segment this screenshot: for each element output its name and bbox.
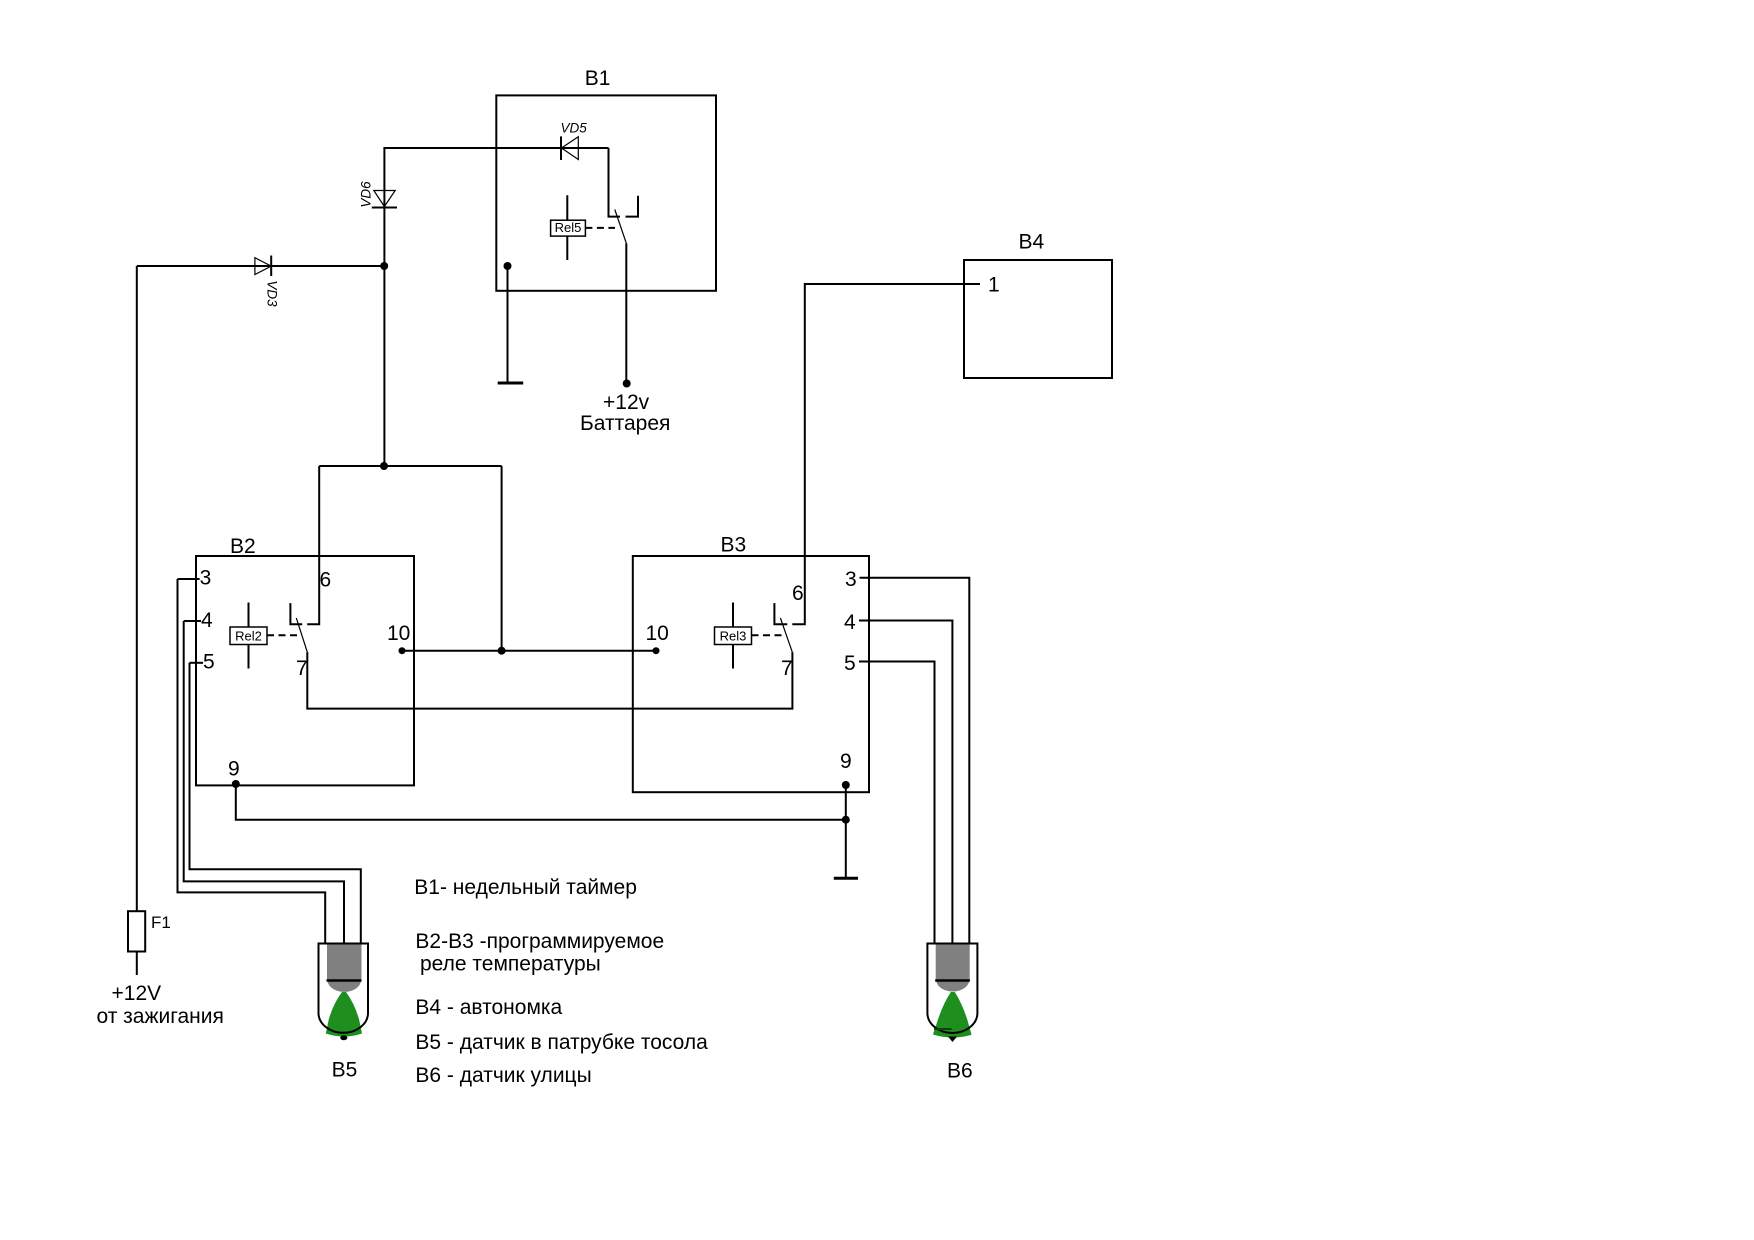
wire: vertical through VD6 from top elbow to lower node [383, 147, 385, 466]
svg-text:B5: B5 [332, 1059, 358, 1082]
svg-text:3: 3 [200, 567, 212, 590]
wire: drop to 10-net [501, 466, 503, 651]
svg-text:5: 5 [203, 651, 215, 674]
node: B1 ground node dot [504, 262, 512, 270]
svg-text:6: 6 [792, 582, 804, 605]
pin 4 stub of B2 [184, 620, 201, 622]
svg-text:4: 4 [201, 609, 213, 632]
relay Rel2 fixed contact [290, 603, 302, 624]
svg-text:VD3: VD3 [264, 280, 279, 307]
svg-text:В2-В3 -программируемое: В2-В3 -программируемое [415, 930, 664, 953]
wire: B2 pin3 to sensor B5 [178, 579, 326, 946]
pin 5 stub of B2 [190, 662, 204, 664]
svg-text:5: 5 [844, 652, 856, 675]
wire: left vertical from VD3 down to fuse F1 [136, 266, 138, 911]
svg-text:10: 10 [646, 622, 669, 645]
wire: drop to B2 pin6 contact [307, 466, 319, 624]
wire: 10-net horizontal B2 to B3 [402, 650, 656, 652]
node dot B2 pin9 [232, 780, 240, 788]
dashed link Rel2 to blade [267, 634, 300, 636]
node dot top distribution junction [380, 462, 388, 470]
svg-text:+12V: +12V [112, 982, 162, 1005]
svg-text:B3: B3 [721, 534, 747, 557]
node dot B3 pin9 [842, 781, 850, 789]
wire: B4 pin1 wire down to B3 pin6 contact [792, 284, 980, 624]
wire: B3 pin9 down to ground [845, 785, 847, 877]
svg-text:9: 9 [840, 750, 852, 773]
node dot B2 pin10 [399, 647, 406, 654]
node: +12v battery terminal dot [623, 380, 631, 388]
svg-text:В5 - датчик в патрубке тосола: В5 - датчик в патрубке тосола [415, 1031, 708, 1054]
block B4 (autonomous heater) box [964, 260, 1112, 378]
relay Rel5 switch blade [615, 210, 627, 244]
wire: B1 node down to ground [507, 266, 509, 382]
svg-text:Rel3: Rel3 [720, 629, 747, 644]
svg-text:3: 3 [845, 568, 857, 591]
diode VD6 [372, 191, 397, 208]
svg-text:10: 10 [387, 622, 410, 645]
sensor B5 bulb [319, 944, 369, 1041]
wire: blade to +12v battery terminal [625, 243, 627, 383]
wire: B2 pin5 to sensor B5 [190, 663, 361, 958]
relay Rel3 switch blade [780, 618, 792, 652]
sensor B6 bulb [927, 944, 977, 1043]
fuse F1 [128, 911, 145, 951]
svg-text:В4 - автономка: В4 - автономка [415, 996, 562, 1019]
pin 5 stub of B3 to B6 [859, 662, 935, 953]
svg-text:+12v: +12v [603, 391, 650, 414]
ground bar below B3 [834, 877, 858, 880]
relay Rel5 coil line [566, 195, 568, 260]
dashed link Rel5 to blade [585, 227, 615, 229]
wire: top horizontal from VD6 branch through B1 to switch [384, 147, 608, 149]
diode VD5 [561, 136, 578, 160]
pin 3 stub of B3 to B6 [860, 578, 970, 952]
svg-text:B2: B2 [230, 535, 256, 558]
relay Rel3 coil line [732, 603, 734, 669]
wire: VD5 down to Rel5 moving contact arm [609, 148, 621, 217]
svg-text:В6 - датчик улицы: В6 - датчик улицы [415, 1064, 591, 1087]
svg-text:Rel5: Rel5 [555, 220, 582, 235]
svg-text:реле температуры: реле температуры [420, 953, 601, 976]
block B3 (temperature relay) box [633, 556, 869, 792]
relay Rel3 coil box [715, 627, 752, 645]
relay Rel2 coil line [248, 603, 250, 669]
svg-text:Rel2: Rel2 [235, 629, 262, 644]
relay Rel5 coil box [551, 220, 586, 236]
pin 3 stub of B2 [178, 578, 200, 580]
svg-text:B4: B4 [1019, 230, 1045, 253]
wire: 7-net B2 blade to B3 blade [307, 652, 792, 709]
svg-text:VD5: VD5 [561, 120, 588, 135]
svg-text:6: 6 [320, 569, 332, 592]
relay Rel5 fixed contact [626, 196, 639, 217]
wire: B2 pin4 to sensor B5 [184, 621, 344, 952]
svg-text:Баттарея: Баттарея [580, 412, 670, 435]
relay Rel3 fixed contact [774, 603, 787, 624]
wire: VD3 horizontal to node [137, 265, 385, 267]
node dot 9-net junction [842, 816, 850, 824]
svg-text:7: 7 [296, 657, 308, 680]
svg-text:VD6: VD6 [358, 181, 373, 208]
svg-text:В1- недельный таймер: В1- недельный таймер [414, 876, 637, 899]
dashed link Rel3 to blade [752, 634, 784, 636]
wire: 9-net B2 down and right [236, 784, 846, 820]
svg-text:от зажигания: от зажигания [97, 1005, 224, 1028]
block B2 (temperature relay) box [196, 556, 414, 785]
svg-text:B1: B1 [585, 67, 611, 90]
svg-text:1: 1 [988, 274, 1000, 297]
relay Rel2 switch blade [296, 618, 307, 652]
svg-text:B6: B6 [947, 1060, 973, 1083]
svg-text:7: 7 [781, 657, 793, 680]
block B1 (weekly timer) box [496, 95, 716, 290]
node dot B3 pin10 [653, 647, 660, 654]
wire: distribution horizontal y466 [319, 465, 501, 467]
relay Rel2 coil box [230, 627, 267, 645]
ground bar below B1 [498, 382, 524, 385]
svg-text:F1: F1 [151, 913, 171, 932]
svg-text:9: 9 [228, 758, 240, 781]
pin 4 stub of B3 to B6 [859, 621, 952, 953]
wire: below fuse stub [136, 952, 138, 976]
node dot on 10-net [498, 647, 506, 655]
svg-text:4: 4 [844, 611, 856, 634]
node dot VD3/VD6 junction [380, 262, 388, 270]
diode VD3 [255, 256, 271, 277]
